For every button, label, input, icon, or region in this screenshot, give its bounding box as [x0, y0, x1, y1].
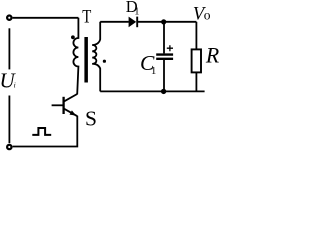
- transistor S base stub wire: [52, 104, 64, 106]
- wire resistor bottom lead: [195, 72, 197, 91]
- transistor S collector diagonal: [64, 94, 77, 101]
- svg-text:1: 1: [134, 7, 139, 18]
- transformer primary polarity dot: [71, 35, 75, 39]
- svg-text:i: i: [14, 81, 16, 90]
- node: capacitor-resistor bottom junction: [161, 89, 166, 94]
- capacitor C1 top plate: [156, 53, 173, 55]
- capacitor C1 bottom plate: [156, 58, 173, 60]
- input terminal - (bottom-left): [7, 145, 11, 149]
- svg-text:S: S: [85, 107, 97, 131]
- wire left vertical lower: [8, 96, 10, 144]
- wire capacitor bottom lead: [163, 60, 165, 92]
- transformer core: [84, 37, 88, 83]
- wire capacitor top lead: [163, 22, 165, 54]
- wire Vo corner down to resistor: [195, 22, 197, 50]
- transistor S base bar: [62, 97, 64, 114]
- capacitor + polarity sign: [167, 45, 173, 51]
- node: diode-capacitor-Vo junction: [161, 19, 166, 24]
- wire top-left horizontal: [13, 17, 79, 19]
- input terminal + (top-left): [7, 16, 11, 20]
- wire left vertical upper: [8, 28, 10, 69]
- svg-text:1: 1: [151, 65, 157, 77]
- diode D1 triangle: [129, 17, 137, 28]
- svg-text:o: o: [204, 8, 211, 23]
- diode D1 cathode bar: [136, 17, 138, 28]
- transformer T secondary winding: [92, 22, 100, 92]
- svg-text:T: T: [82, 6, 92, 27]
- wire bottom-left horizontal: [13, 116, 78, 147]
- svg-text:R: R: [205, 43, 219, 67]
- wire secondary top to diode: [100, 21, 129, 23]
- transformer secondary polarity dot: [103, 60, 106, 63]
- transformer T primary winding: [73, 18, 78, 94]
- transistor S emitter arrowhead: [70, 110, 77, 115]
- wire diode to Vo corner: [137, 21, 196, 23]
- transistor S emitter diagonal: [64, 109, 77, 116]
- pulse (gate drive square-wave symbol): [32, 128, 51, 135]
- wire bottom-right horizontal: [100, 90, 204, 92]
- resistor R body: [192, 49, 201, 72]
